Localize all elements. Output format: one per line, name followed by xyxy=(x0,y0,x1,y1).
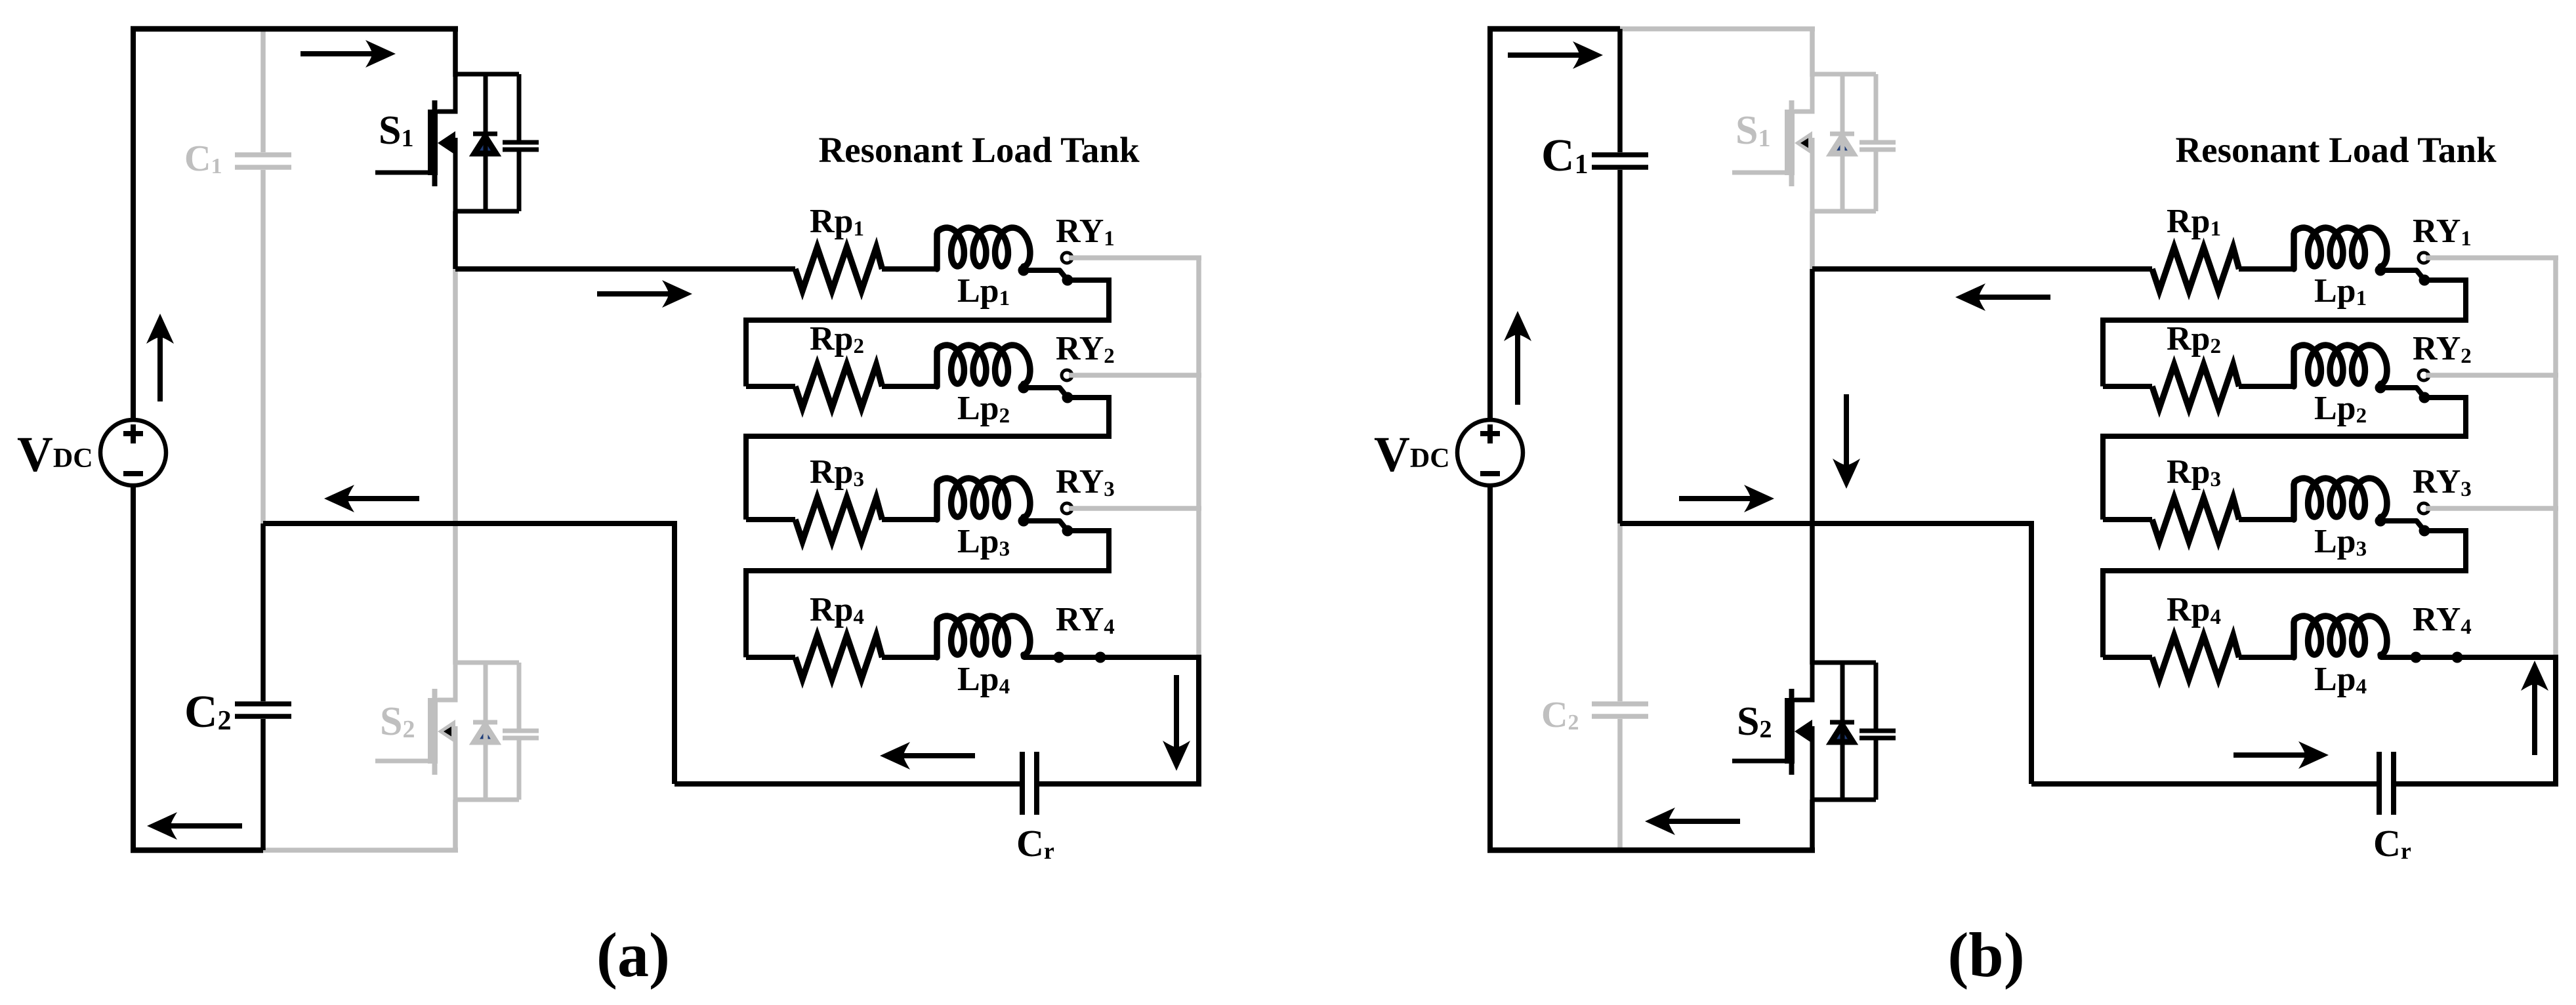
resistor Rp2 (b) xyxy=(2152,365,2239,408)
wire S2 (a) source link xyxy=(453,726,458,800)
S1 (b) gate bar xyxy=(1789,100,1795,186)
svg-text:Lp2: Lp2 xyxy=(2314,390,2367,428)
wire mid return (b) xyxy=(1620,521,2034,526)
label Lp1 (a) xyxy=(957,272,1010,310)
resistor Rp1 (b) xyxy=(2152,247,2239,291)
arrow bottom left (a) xyxy=(147,812,242,840)
svg-text:Rp3: Rp3 xyxy=(810,453,864,491)
wire branch 3 lead (a) xyxy=(746,517,795,522)
relay RY3 (b) xyxy=(2375,503,2430,537)
label S1 (b) xyxy=(1735,108,1770,153)
svg-text:Lp4: Lp4 xyxy=(2314,661,2367,699)
svg-text:Rp2: Rp2 xyxy=(2167,320,2221,358)
label RY3 (a) xyxy=(1056,463,1115,501)
wire S1 source stem (a) xyxy=(453,211,458,269)
svg-text:Lp1: Lp1 xyxy=(2314,272,2367,310)
wire S2 (b) gate lead xyxy=(1732,759,1790,764)
wire load left vertical (b) xyxy=(2029,523,2034,784)
wire S1 (a) top rail xyxy=(455,72,519,77)
wire Cr left (b) xyxy=(2031,781,2377,787)
svg-text:Resonant Load Tank: Resonant Load Tank xyxy=(818,130,1140,170)
wire S2 (b) bottom rail xyxy=(1812,798,1876,802)
relay RY4 closed (a) xyxy=(1024,652,1201,663)
voltage source VDC (b) xyxy=(1457,420,1523,485)
svg-text:RY1: RY1 xyxy=(2413,213,2472,251)
svg-text:Lp3: Lp3 xyxy=(957,523,1010,561)
wire S2 (b) drain link xyxy=(1795,663,1812,700)
svg-text:RY2: RY2 xyxy=(1056,330,1115,368)
arrow phase down (b) xyxy=(1833,394,1860,489)
arrow bottom left (b) xyxy=(1645,808,1740,835)
wire S1 (a) bottom rail xyxy=(455,209,519,214)
resistor Rp4 (a) xyxy=(795,636,883,679)
label RY3 (b) xyxy=(2413,463,2472,501)
relay RY2 (a) xyxy=(1018,370,1073,403)
label VDC (a) xyxy=(17,427,93,482)
wire Cr left (a) xyxy=(675,781,1020,787)
wire branch 2 return (a) xyxy=(746,398,1109,520)
wire bottom rail (b) xyxy=(1487,848,1815,853)
wire branch 1 mid (a) xyxy=(882,266,938,272)
svg-text:Rp3: Rp3 xyxy=(2167,453,2221,491)
wire branch 2 lead (a) xyxy=(746,384,795,389)
svg-text:Rp4: Rp4 xyxy=(2167,591,2221,629)
relay RY3 (a) xyxy=(1018,503,1073,537)
wire S2 (a) top rail xyxy=(455,661,519,665)
wire S1 (a) source link xyxy=(453,138,458,211)
svg-text:C1: C1 xyxy=(184,138,222,179)
label Resonant Load Tank (b) xyxy=(2175,130,2497,170)
inductor Lp3 (b) xyxy=(2294,478,2387,520)
wire branch 3 mid (a) xyxy=(882,517,938,522)
svg-text:C1: C1 xyxy=(1541,131,1589,181)
capacitor C1 (b) xyxy=(1592,29,1648,523)
wire branch 3 return (b) xyxy=(2103,531,2466,657)
wire S1 drain stem (a) xyxy=(453,29,458,77)
svg-text:Lp1: Lp1 xyxy=(957,272,1010,310)
label RY4 (a) xyxy=(1056,601,1115,639)
wire branch 1 mid (b) xyxy=(2239,266,2295,272)
capacitor C2 (b) xyxy=(1592,523,1648,850)
inductor Lp4 (a) xyxy=(937,616,1030,657)
S2 (a) channel bar xyxy=(428,698,438,764)
label S2 (b) xyxy=(1737,699,1772,744)
wire branch 2 mid (a) xyxy=(882,384,938,389)
label Rp1 (b) xyxy=(2167,203,2221,241)
wire phase vertical (b) xyxy=(1810,269,1815,665)
svg-text:Rp1: Rp1 xyxy=(2167,203,2221,241)
svg-text:Cr: Cr xyxy=(1016,822,1054,865)
S2 (a) body diode xyxy=(473,663,497,800)
S1 (a) snubber cap xyxy=(503,74,539,211)
wire S2 (b) top rail xyxy=(1812,661,1876,665)
svg-text:S2: S2 xyxy=(1737,699,1772,744)
svg-text:RY4: RY4 xyxy=(2413,601,2472,639)
wire top rail black (b) xyxy=(1487,26,1620,32)
wire S2 (a) drain link xyxy=(438,663,455,700)
wire bottom rail black (a) xyxy=(131,848,263,853)
wire left supply vertical (b) xyxy=(1487,26,1493,850)
S1 (b) body diode xyxy=(1830,74,1854,211)
arrow mid left (a) xyxy=(324,485,419,512)
resistor Rp2 (a) xyxy=(795,365,883,408)
label RY2 (b) xyxy=(2413,330,2472,368)
wire S1 drain stem (b) xyxy=(1810,29,1815,77)
arrow phase right (a) xyxy=(597,280,692,308)
resistor Rp3 (a) xyxy=(795,498,883,541)
wire branch 1 lead (a) xyxy=(455,266,795,272)
label Rp2 (a) xyxy=(810,320,864,358)
wire S2 source stem (b) xyxy=(1810,800,1815,850)
arrow load up (b) xyxy=(2521,661,2548,755)
label Rp4 (b) xyxy=(2167,591,2221,629)
resistor Rp4 (b) xyxy=(2152,636,2239,679)
caption (a) xyxy=(596,920,670,990)
S2 (b) gate bar xyxy=(1789,689,1795,775)
svg-text:(a): (a) xyxy=(596,920,670,990)
arrow mid right (b) xyxy=(1679,485,1774,512)
svg-text:VDC: VDC xyxy=(17,427,93,482)
wire branch 3 lead (b) xyxy=(2103,517,2152,522)
wire load left vertical (a) xyxy=(672,523,677,784)
svg-text:RY2: RY2 xyxy=(2413,330,2472,368)
inductor Lp4 (b) xyxy=(2294,616,2387,657)
relay RY1 (b) xyxy=(2375,253,2430,286)
svg-text:RY1: RY1 xyxy=(1056,213,1115,251)
label C2 (b) xyxy=(1541,695,1579,735)
label Rp3 (b) xyxy=(2167,453,2221,491)
S2 (a) snubber cap xyxy=(503,663,539,800)
resistor Rp1 (a) xyxy=(795,247,883,291)
svg-text:S1: S1 xyxy=(1735,108,1770,153)
label Lp4 (a) xyxy=(957,661,1010,699)
inductor Lp3 (a) xyxy=(937,478,1030,520)
wire S2 (a) bottom rail xyxy=(455,798,519,802)
capacitor Cr (a) xyxy=(1022,752,1037,815)
wire phase vertical (a) xyxy=(453,269,458,665)
wire S2 source stem (a) xyxy=(453,800,458,850)
wire branch 2 return (b) xyxy=(2103,398,2466,520)
S2 (b) snubber cap xyxy=(1859,663,1896,800)
wire load right vertical (b) xyxy=(2553,657,2558,784)
wire Cr right (a) xyxy=(1039,781,1201,787)
arrow top current (b) xyxy=(1508,41,1603,69)
arrow branch1 left (b) xyxy=(1955,283,2050,311)
svg-text:Lp3: Lp3 xyxy=(2314,523,2367,561)
wire branch 1 lead (b) xyxy=(1812,266,2152,272)
label S2 (a) xyxy=(380,699,415,744)
wire branch 4 mid (b) xyxy=(2239,655,2295,660)
wire branch 1 return (a) xyxy=(746,280,1109,386)
svg-text:RY3: RY3 xyxy=(2413,463,2472,501)
S1 (a) body diode xyxy=(473,74,497,211)
inductor Lp1 (b) xyxy=(2294,228,2387,269)
label Lp3 (a) xyxy=(957,523,1010,561)
wire branch 3 return (a) xyxy=(746,531,1109,657)
S2 (a) gate bar xyxy=(432,689,438,775)
svg-text:Lp4: Lp4 xyxy=(957,661,1010,699)
svg-text:Rp2: Rp2 xyxy=(810,320,864,358)
arrow top current (a) xyxy=(301,40,396,68)
wire S1 (a) drain link xyxy=(438,74,455,112)
label C1 (b) xyxy=(1541,131,1589,181)
wire bottom rail gray (a) xyxy=(263,848,458,853)
wire branch 2 mid (b) xyxy=(2239,384,2295,389)
label S1 (a) xyxy=(379,108,413,153)
relay RY1 (a) xyxy=(1018,253,1073,286)
label VDC (b) xyxy=(1374,427,1450,482)
S2 (b) channel bar xyxy=(1785,698,1795,764)
arrow Cr left (a) xyxy=(880,742,975,769)
svg-text:Rp1: Rp1 xyxy=(810,203,864,241)
capacitor C1 (a) xyxy=(235,29,291,523)
wire branch 4 lead (b) xyxy=(2103,655,2152,660)
svg-text:Lp2: Lp2 xyxy=(957,390,1010,428)
wire top rail gray (b) xyxy=(1620,26,1815,31)
caption (b) xyxy=(1947,920,2024,990)
resistor Rp3 (b) xyxy=(2152,498,2239,541)
wire load right vertical (a) xyxy=(1196,657,1201,784)
wire S1 (b) top rail xyxy=(1812,72,1876,77)
svg-text:Resonant Load Tank: Resonant Load Tank xyxy=(2175,130,2497,170)
wire S1 (a) gate lead xyxy=(375,171,433,175)
wire S1 source stem (b) xyxy=(1810,211,1815,269)
label Rp1 (a) xyxy=(810,203,864,241)
wire branch 2 lead (b) xyxy=(2103,384,2152,389)
inductor Lp2 (b) xyxy=(2294,345,2387,386)
label Cr (b) xyxy=(2373,822,2411,865)
wire mid return (a) xyxy=(263,521,677,526)
S1 (a) source arrow xyxy=(438,131,455,155)
svg-text:RY4: RY4 xyxy=(1056,601,1115,639)
S1 (a) channel bar xyxy=(428,110,438,175)
relay RY2 (b) xyxy=(2375,370,2430,403)
label Resonant Load Tank (a) xyxy=(818,130,1140,170)
wire relay taps gray (a) xyxy=(1069,258,1201,508)
wire branch 4 lead (a) xyxy=(746,655,795,660)
svg-text:S2: S2 xyxy=(380,699,415,744)
arrow Cr right (b) xyxy=(2233,741,2329,769)
wire S2 (b) source link xyxy=(1810,726,1815,800)
wire S2 (a) gate lead xyxy=(375,759,433,764)
wire left supply vertical (a) xyxy=(131,26,136,850)
S2 (b) body diode xyxy=(1830,663,1854,800)
label RY4 (b) xyxy=(2413,601,2472,639)
label RY2 (a) xyxy=(1056,330,1115,368)
S2 (a) source arrow xyxy=(438,720,455,743)
svg-text:VDC: VDC xyxy=(1374,427,1450,482)
label Lp3 (b) xyxy=(2314,523,2367,561)
label C2 (a) xyxy=(184,687,232,737)
svg-text:RY3: RY3 xyxy=(1056,463,1115,501)
label Lp2 (a) xyxy=(957,390,1010,428)
wire S1 (b) bottom rail xyxy=(1812,209,1876,214)
S1 (b) source arrow xyxy=(1795,131,1812,155)
wire relay taps gray (b) xyxy=(2426,258,2558,508)
svg-text:C2: C2 xyxy=(1541,695,1579,735)
label Cr (a) xyxy=(1016,822,1054,865)
label Lp1 (b) xyxy=(2314,272,2367,310)
wire S1 (b) gate lead xyxy=(1732,171,1790,175)
label Lp4 (b) xyxy=(2314,661,2367,699)
label Rp4 (a) xyxy=(810,591,864,629)
arrow load down (a) xyxy=(1163,675,1190,771)
wire Cr right (b) xyxy=(2396,781,2558,787)
label Rp2 (b) xyxy=(2167,320,2221,358)
S1 (b) snubber cap xyxy=(1859,74,1896,211)
capacitor C2 (a) xyxy=(235,523,291,850)
label Rp3 (a) xyxy=(810,453,864,491)
wire S1 (b) source link xyxy=(1810,138,1815,211)
wire relay bus vertical gray (b) xyxy=(2553,258,2558,655)
wire branch 1 return (b) xyxy=(2103,280,2466,386)
wire branch 3 mid (b) xyxy=(2239,517,2295,522)
label Lp2 (b) xyxy=(2314,390,2367,428)
svg-text:C2: C2 xyxy=(184,687,232,737)
svg-text:S1: S1 xyxy=(379,108,413,153)
label RY1 (a) xyxy=(1056,213,1115,251)
arrow source up (a) xyxy=(146,314,174,401)
wire top rail (a) xyxy=(131,26,458,32)
svg-text:Rp4: Rp4 xyxy=(810,591,864,629)
label C1 (a) xyxy=(184,138,222,179)
wire branch 4 mid (a) xyxy=(882,655,938,660)
arrow source up (b) xyxy=(1504,311,1531,405)
S1 (a) gate bar xyxy=(432,100,438,186)
inductor Lp1 (a) xyxy=(937,228,1030,269)
wire S1 (b) drain link xyxy=(1795,74,1812,112)
voltage source VDC (a) xyxy=(100,420,166,485)
svg-text:(b): (b) xyxy=(1947,920,2024,990)
label RY1 (b) xyxy=(2413,213,2472,251)
S1 (b) channel bar xyxy=(1785,110,1795,175)
svg-text:Cr: Cr xyxy=(2373,822,2411,865)
inductor Lp2 (a) xyxy=(937,345,1030,386)
capacitor Cr (b) xyxy=(2379,752,2394,815)
wire relay bus vertical gray (a) xyxy=(1196,258,1201,655)
S2 (b) source arrow xyxy=(1795,720,1812,743)
relay RY4 closed (b) xyxy=(2380,652,2558,663)
